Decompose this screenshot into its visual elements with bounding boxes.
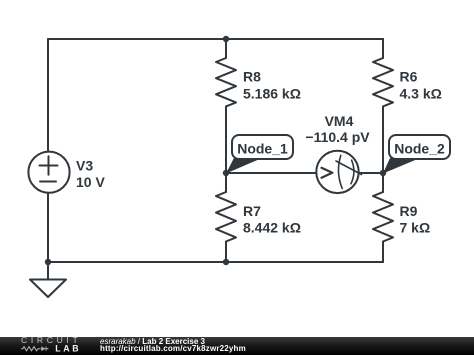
svg-text:LAB: LAB [55, 344, 81, 354]
svg-text:R6: R6 [400, 69, 418, 85]
svg-text:R8: R8 [243, 69, 261, 85]
svg-text:4.3 kΩ: 4.3 kΩ [400, 86, 442, 102]
svg-text:Node_1: Node_1 [237, 140, 288, 156]
svg-text:5.186 kΩ: 5.186 kΩ [243, 86, 301, 102]
svg-text:Node_2: Node_2 [394, 140, 445, 156]
svg-text:10 V: 10 V [76, 174, 105, 190]
svg-text:R9: R9 [400, 203, 418, 219]
svg-text:V3: V3 [76, 158, 93, 174]
svg-text:R7: R7 [243, 203, 261, 219]
svg-text:VM4: VM4 [325, 113, 354, 129]
svg-text:7 kΩ: 7 kΩ [400, 219, 431, 235]
svg-text:8.442 kΩ: 8.442 kΩ [243, 219, 301, 235]
svg-text:−110.4 pV: −110.4 pV [305, 129, 370, 145]
